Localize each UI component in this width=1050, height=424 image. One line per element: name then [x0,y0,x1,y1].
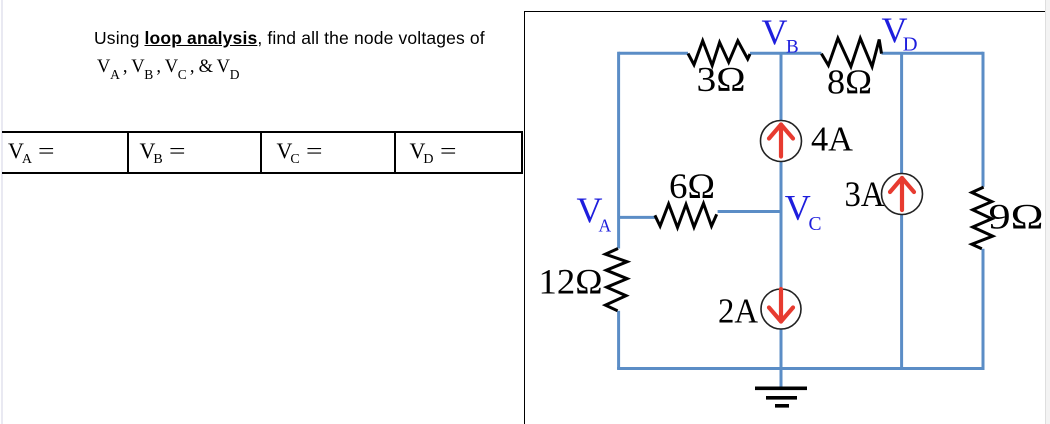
svg-text:2A: 2A [718,293,758,331]
wire node B vertical [780,53,783,368]
wire node D vertical [900,53,903,368]
wire top right segment [882,52,984,55]
table cell VC [277,143,319,168]
right slide edge line [1045,0,1047,424]
current source 2A circle [761,289,801,329]
svg-text:3Ω: 3Ω [697,61,746,99]
resistor R 3ohm zigzag [688,41,750,66]
wire left vertical lower [617,311,620,369]
svg-text:V: V [762,12,788,52]
wire right vertical lower [982,249,985,370]
ground stub wire [780,369,783,389]
resistor R 8ohm zigzag [821,38,881,66]
resistor R 9ohm zigzag [972,187,993,249]
svg-text:8Ω: 8Ω [827,64,872,102]
current source 3A circle [882,174,923,215]
current source 2A arrow [769,289,793,322]
current source 4A circle [761,121,802,162]
circuit panel border [524,11,1045,424]
svg-text:3A: 3A [845,174,885,214]
svg-text:4A: 4A [811,121,853,159]
current source 4A arrow [769,125,793,157]
wire middle left segment [619,216,655,219]
resistor R 12ohm zigzag [605,249,627,311]
svg-text:A: A [599,215,612,235]
svg-text:9Ω: 9Ω [989,197,1044,237]
table cell VD [410,143,452,168]
svg-text:V: V [785,187,811,227]
current source 3A arrow [890,178,914,210]
wire top middle segment [750,52,821,55]
left slide edge line [1,0,3,424]
wire top left segment [619,52,688,55]
wire left vertical upper [617,52,620,249]
table cell VA [8,143,50,168]
svg-text:6Ω: 6Ω [669,166,715,206]
svg-text:D: D [903,34,918,56]
svg-text:12Ω: 12Ω [539,262,603,302]
title line 1 [94,28,514,49]
wire middle right segment [718,210,781,213]
wire right vertical upper [982,52,985,187]
ground symbol [755,387,807,408]
svg-text:C: C [809,214,822,235]
table cell VB [140,143,182,168]
answer table [2,131,523,174]
wire bottom [617,367,983,370]
title line 2 [97,57,239,83]
resistor R 6ohm zigzag [655,204,717,228]
svg-text:B: B [786,36,799,57]
